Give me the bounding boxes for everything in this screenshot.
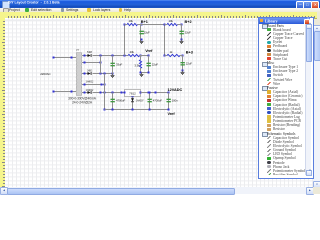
- capacitor C2 input 4700uF: [112, 93, 114, 110]
- diode D2: [88, 72, 91, 75]
- transformer PT: [76, 52, 82, 96]
- svg-text:22uF: 22uF: [144, 31, 150, 35]
- wire secondary row3: [82, 73, 87, 75]
- wire D2 to ground bus: [92, 73, 112, 75]
- resistor 1k: [167, 54, 180, 56]
- wire primary top: [53, 57, 76, 59]
- capacitor C3 output 4700uF: [149, 93, 151, 110]
- svg-text:4700uF: 4700uF: [116, 99, 125, 103]
- svg-text:Vref: Vref: [145, 49, 153, 53]
- resistor 10k second: [167, 23, 178, 25]
- svg-text:43k: 43k: [130, 50, 135, 54]
- wire D4 to regulator rail: [92, 92, 124, 94]
- capacitor Vref 22uF: [148, 56, 150, 73]
- svg-text:Vref: Vref: [168, 112, 176, 116]
- svg-text:3400: 3400: [87, 69, 93, 72]
- wire B+1 to riser2: [141, 24, 165, 26]
- node B+3: [182, 55, 184, 57]
- svg-text:B+1: B+1: [141, 20, 148, 24]
- svg-text:220VAC: 220VAC: [40, 72, 51, 76]
- svg-text:33uF: 33uF: [116, 63, 122, 67]
- svg-text:22uF: 22uF: [186, 62, 192, 66]
- svg-text:1N4002: 1N4002: [86, 89, 94, 92]
- diode D4 1N4002: [88, 91, 91, 94]
- diode D1 1N5408: [88, 54, 91, 57]
- svg-text:1N4007: 1N4007: [136, 100, 144, 103]
- wire secondary row4: [82, 84, 105, 86]
- svg-text:24-0-24V@2A: 24-0-24V@2A: [72, 100, 93, 104]
- ground at B+2: [181, 40, 183, 41]
- svg-text:22uF: 22uF: [185, 31, 191, 35]
- wire riser 2: [164, 25, 166, 56]
- svg-text:1N4002: 1N4002: [86, 80, 94, 83]
- wire rail connectors: [125, 24, 128, 26]
- wire vertical join A: [100, 56, 102, 74]
- svg-text:10k: 10k: [129, 19, 134, 23]
- svg-text:PT: PT: [76, 49, 80, 52]
- wire Vref node to cap: [141, 55, 149, 57]
- wire secondary row5: [82, 92, 87, 94]
- svg-text:5408: 5408: [87, 51, 93, 54]
- wire riser 1: [124, 25, 126, 56]
- svg-text:B+3: B+3: [186, 51, 193, 55]
- svg-text:4700uF: 4700uF: [153, 99, 162, 103]
- wire secondary row2: [82, 62, 101, 64]
- node B+1: [141, 24, 143, 26]
- svg-text:B+2: B+2: [185, 20, 192, 24]
- ground at B+1: [140, 40, 142, 41]
- capacitor at B+2: [181, 25, 183, 40]
- wire bottom return rail: [105, 109, 169, 111]
- wire vref bottom: [141, 72, 149, 74]
- svg-text:3.3k: 3.3k: [134, 63, 140, 67]
- svg-text:22uF: 22uF: [152, 63, 158, 67]
- resistor 43k: [128, 54, 140, 56]
- node B+2: [181, 24, 183, 26]
- ground at vref divider: [141, 73, 143, 74]
- capacitor C4 100n: [168, 93, 170, 110]
- svg-text:100n: 100n: [172, 99, 178, 103]
- resistor 10k first: [127, 23, 138, 25]
- capacitor at B+3: [182, 56, 184, 71]
- capacitor C1 reservoir: [112, 56, 114, 74]
- wire secondary row1: [82, 55, 87, 57]
- svg-text:7812: 7812: [129, 92, 136, 96]
- svg-text:12VADC: 12VADC: [168, 88, 183, 92]
- wire D1 to B+ rail: [92, 55, 128, 57]
- svg-text:10k: 10k: [169, 19, 174, 23]
- ground at C1: [112, 74, 114, 75]
- wire regulator output rail: [141, 92, 169, 94]
- capacitor at B+1: [140, 25, 142, 40]
- regulator 7812 box: [125, 89, 141, 96]
- node Vref: [140, 55, 142, 57]
- wire primary bottom: [53, 91, 76, 93]
- wire vertical join B: [104, 74, 106, 110]
- ground at B+3: [182, 71, 184, 72]
- resistor 3.3k vertical: [140, 56, 142, 60]
- svg-text:1k: 1k: [170, 50, 173, 54]
- diode D6 1N4007: [132, 97, 134, 110]
